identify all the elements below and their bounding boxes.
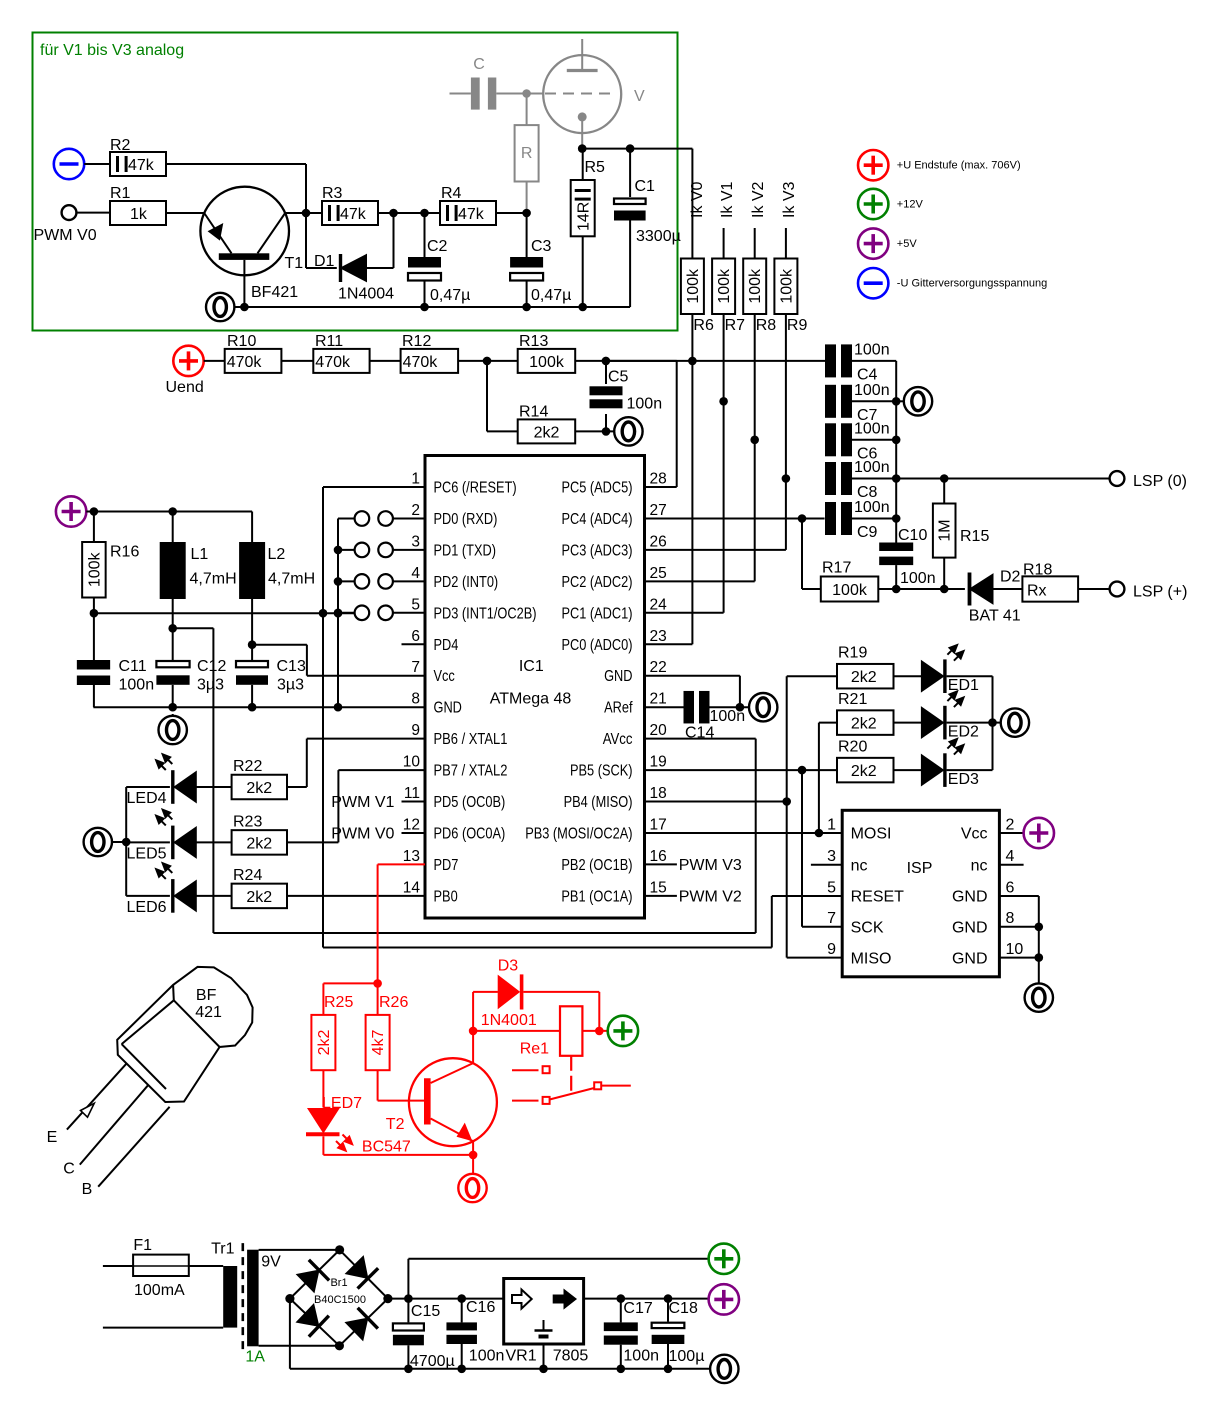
- svg-text:PB3 (MOSI/OC2A): PB3 (MOSI/OC2A): [525, 826, 632, 843]
- svg-text:100n: 100n: [900, 570, 936, 587]
- svg-text:3: 3: [411, 533, 420, 550]
- svg-text:C3: C3: [531, 238, 552, 255]
- svg-text:+U Endstufe (max. 706V): +U Endstufe (max. 706V): [897, 160, 1021, 172]
- svg-text:C: C: [473, 56, 485, 73]
- svg-text:12: 12: [403, 817, 420, 834]
- svg-text:R9: R9: [787, 317, 808, 334]
- svg-text:C18: C18: [669, 1300, 698, 1317]
- svg-text:9V: 9V: [261, 1254, 281, 1271]
- svg-text:421: 421: [195, 1004, 222, 1021]
- svg-text:8: 8: [411, 691, 420, 708]
- svg-text:R18: R18: [1023, 562, 1052, 579]
- svg-text:R13: R13: [519, 333, 548, 350]
- svg-text:5: 5: [827, 879, 836, 896]
- svg-text:1: 1: [411, 471, 420, 488]
- svg-text:V: V: [634, 88, 645, 105]
- svg-text:R25: R25: [324, 994, 353, 1011]
- svg-text:2k2: 2k2: [851, 669, 877, 686]
- svg-text:100n: 100n: [710, 708, 746, 725]
- svg-text:R11: R11: [315, 333, 343, 350]
- svg-text:C17: C17: [623, 1300, 652, 1317]
- svg-text:T2: T2: [386, 1116, 405, 1133]
- svg-text:PD1 (TXD): PD1 (TXD): [434, 542, 497, 559]
- svg-text:2k2: 2k2: [246, 889, 272, 906]
- svg-text:47k: 47k: [340, 206, 367, 223]
- svg-text:8: 8: [1006, 910, 1015, 927]
- svg-text:R21: R21: [838, 691, 867, 708]
- svg-text:PWM V3: PWM V3: [679, 857, 742, 874]
- svg-text:2: 2: [1006, 816, 1015, 833]
- svg-text:100k: 100k: [685, 268, 702, 304]
- svg-text:0,47µ: 0,47µ: [430, 287, 470, 304]
- svg-text:GND: GND: [604, 668, 632, 685]
- svg-text:100k: 100k: [529, 354, 565, 371]
- svg-text:4,7mH: 4,7mH: [268, 571, 315, 588]
- svg-text:BC547: BC547: [362, 1139, 411, 1156]
- svg-text:25: 25: [650, 565, 667, 582]
- svg-text:R3: R3: [322, 185, 343, 202]
- svg-text:R4: R4: [441, 185, 462, 202]
- svg-text:100µ: 100µ: [669, 1348, 705, 1365]
- svg-text:14: 14: [403, 879, 421, 896]
- svg-text:PC6 (/RESET): PC6 (/RESET): [434, 480, 517, 497]
- svg-text:4k7: 4k7: [370, 1030, 387, 1056]
- svg-text:Br1: Br1: [330, 1277, 347, 1289]
- svg-text:L2: L2: [268, 546, 286, 563]
- svg-text:19: 19: [650, 754, 667, 771]
- svg-text:D1: D1: [314, 253, 335, 270]
- svg-text:470k: 470k: [227, 354, 263, 371]
- svg-text:C15: C15: [411, 1303, 440, 1320]
- svg-text:Uend: Uend: [166, 379, 204, 396]
- svg-text:Tr1: Tr1: [211, 1241, 235, 1258]
- svg-text:C14: C14: [685, 725, 714, 742]
- svg-text:C5: C5: [608, 369, 629, 386]
- svg-text:9: 9: [411, 722, 420, 739]
- svg-text:R: R: [521, 145, 533, 162]
- svg-text:18: 18: [650, 785, 667, 802]
- svg-text:für V1 bis V3 analog: für V1 bis V3 analog: [40, 42, 184, 59]
- svg-text:27: 27: [650, 502, 667, 519]
- svg-text:100n: 100n: [119, 677, 155, 694]
- svg-text:Ik V3: Ik V3: [781, 181, 798, 218]
- svg-text:100k: 100k: [86, 551, 103, 587]
- svg-text:10: 10: [403, 754, 421, 771]
- svg-text:R19: R19: [838, 645, 867, 662]
- svg-text:R23: R23: [233, 813, 262, 830]
- svg-text:24: 24: [650, 596, 668, 613]
- svg-text:R2: R2: [110, 137, 131, 154]
- svg-text:PB4 (MISO): PB4 (MISO): [564, 794, 633, 811]
- svg-text:100k: 100k: [832, 582, 868, 599]
- svg-text:PD0 (RXD): PD0 (RXD): [434, 511, 498, 528]
- svg-text:PC2 (ADC2): PC2 (ADC2): [562, 574, 633, 591]
- svg-text:2: 2: [411, 502, 420, 519]
- svg-text:R16: R16: [110, 544, 139, 561]
- svg-text:1N4004: 1N4004: [338, 286, 394, 303]
- svg-text:IC1: IC1: [519, 658, 544, 675]
- svg-text:PD6 (OC0A): PD6 (OC0A): [434, 826, 506, 843]
- svg-text:4: 4: [1006, 848, 1015, 865]
- svg-text:PB2 (OC1B): PB2 (OC1B): [561, 857, 632, 874]
- svg-text:C12: C12: [197, 658, 226, 675]
- svg-text:ISP: ISP: [907, 860, 933, 877]
- svg-text:R6: R6: [693, 317, 714, 334]
- svg-text:F1: F1: [133, 1237, 152, 1254]
- svg-text:Ik V1: Ik V1: [719, 181, 736, 218]
- svg-text:R22: R22: [233, 758, 262, 775]
- svg-text:28: 28: [650, 471, 667, 488]
- svg-text:1A: 1A: [245, 1349, 265, 1366]
- svg-text:PWM V0: PWM V0: [34, 227, 97, 244]
- svg-text:LSP (0): LSP (0): [1133, 473, 1187, 490]
- svg-text:R5: R5: [585, 159, 606, 176]
- svg-text:R8: R8: [756, 317, 777, 334]
- svg-text:PB0: PB0: [434, 888, 459, 905]
- svg-text:100n: 100n: [854, 499, 890, 516]
- svg-text:VR1: VR1: [506, 1348, 537, 1365]
- svg-text:100mA: 100mA: [134, 1282, 185, 1299]
- svg-text:BAT 41: BAT 41: [969, 608, 1021, 625]
- svg-text:PC3 (ADC3): PC3 (ADC3): [562, 542, 633, 559]
- svg-text:2k2: 2k2: [851, 763, 877, 780]
- svg-text:PB7 / XTAL2: PB7 / XTAL2: [434, 763, 508, 780]
- svg-text:nc: nc: [971, 857, 988, 874]
- svg-text:16: 16: [650, 848, 667, 865]
- svg-text:nc: nc: [851, 857, 868, 874]
- svg-text:D2: D2: [1000, 569, 1021, 586]
- svg-text:ED3: ED3: [948, 771, 979, 788]
- svg-text:ED2: ED2: [948, 724, 979, 741]
- svg-text:PC1 (ADC1): PC1 (ADC1): [562, 605, 633, 622]
- svg-text:100n: 100n: [623, 1348, 659, 1365]
- svg-text:R12: R12: [402, 333, 431, 350]
- svg-text:4: 4: [411, 565, 420, 582]
- svg-text:L1: L1: [191, 546, 209, 563]
- svg-text:3µ3: 3µ3: [277, 677, 304, 694]
- svg-text:3300µ: 3300µ: [636, 228, 681, 245]
- svg-text:ED1: ED1: [948, 677, 979, 694]
- svg-text:2k2: 2k2: [316, 1030, 333, 1056]
- svg-text:1k: 1k: [130, 206, 148, 223]
- svg-text:0,47µ: 0,47µ: [531, 287, 571, 304]
- svg-text:22: 22: [650, 659, 667, 676]
- svg-text:PWM V0: PWM V0: [331, 826, 394, 843]
- svg-text:100k: 100k: [747, 268, 764, 304]
- svg-text:PB6 / XTAL1: PB6 / XTAL1: [434, 731, 508, 748]
- svg-text:26: 26: [650, 533, 667, 550]
- svg-text:ARef: ARef: [604, 700, 633, 717]
- svg-text:1: 1: [827, 816, 836, 833]
- svg-text:5: 5: [411, 596, 420, 613]
- svg-text:14R: 14R: [576, 202, 593, 231]
- svg-text:PWM V1: PWM V1: [331, 794, 394, 811]
- svg-text:4700µ: 4700µ: [410, 1353, 455, 1370]
- svg-text:PC4 (ADC4): PC4 (ADC4): [562, 511, 633, 528]
- svg-text:B: B: [82, 1181, 93, 1198]
- svg-text:21: 21: [650, 691, 667, 708]
- svg-text:GND: GND: [434, 700, 462, 717]
- svg-text:AVcc: AVcc: [603, 731, 633, 748]
- svg-text:+12V: +12V: [897, 198, 924, 210]
- svg-text:100n: 100n: [469, 1348, 505, 1365]
- svg-text:C: C: [63, 1161, 75, 1178]
- svg-text:47k: 47k: [458, 206, 485, 223]
- svg-text:Rx: Rx: [1027, 583, 1047, 600]
- svg-text:6: 6: [411, 628, 420, 645]
- svg-text:LSP (+): LSP (+): [1133, 584, 1187, 601]
- svg-text:9: 9: [827, 941, 836, 958]
- svg-text:7: 7: [411, 659, 420, 676]
- svg-text:100n: 100n: [854, 382, 890, 399]
- svg-text:100k: 100k: [716, 268, 733, 304]
- svg-text:2k2: 2k2: [851, 716, 877, 733]
- svg-text:R26: R26: [379, 994, 408, 1011]
- svg-text:PC5 (ADC5): PC5 (ADC5): [562, 480, 633, 497]
- svg-text:47k: 47k: [128, 157, 155, 174]
- svg-text:C9: C9: [857, 524, 878, 541]
- svg-text:Vcc: Vcc: [961, 826, 988, 843]
- svg-text:B40C1500: B40C1500: [314, 1294, 366, 1306]
- svg-text:15: 15: [650, 879, 667, 896]
- svg-text:17: 17: [650, 817, 667, 834]
- svg-text:R14: R14: [519, 404, 548, 421]
- svg-text:GND: GND: [952, 950, 988, 967]
- svg-text:R20: R20: [838, 739, 867, 756]
- svg-text:6: 6: [1006, 879, 1015, 896]
- svg-text:PD5 (OC0B): PD5 (OC0B): [434, 794, 506, 811]
- svg-text:R15: R15: [960, 528, 989, 545]
- svg-text:7: 7: [827, 910, 836, 927]
- svg-text:R7: R7: [725, 317, 746, 334]
- svg-text:13: 13: [403, 848, 420, 865]
- svg-text:C11: C11: [119, 658, 147, 675]
- svg-text:-U Gitterversorgungsspannung: -U Gitterversorgungsspannung: [897, 278, 1047, 290]
- svg-text:PD7: PD7: [434, 857, 459, 874]
- svg-text:LED7: LED7: [322, 1095, 362, 1112]
- svg-text:C13: C13: [277, 658, 306, 675]
- svg-text:R1: R1: [110, 185, 131, 202]
- svg-text:1N4001: 1N4001: [481, 1012, 537, 1029]
- svg-text:470k: 470k: [315, 354, 351, 371]
- svg-text:7805: 7805: [553, 1348, 589, 1365]
- svg-text:2k2: 2k2: [246, 780, 272, 797]
- svg-text:BF421: BF421: [251, 284, 298, 301]
- svg-text:MISO: MISO: [851, 950, 892, 967]
- svg-text:2k2: 2k2: [534, 424, 560, 441]
- svg-text:LED5: LED5: [127, 845, 167, 862]
- svg-text:PD4: PD4: [434, 637, 459, 654]
- svg-text:100n: 100n: [854, 459, 890, 476]
- svg-text:LED6: LED6: [127, 899, 167, 916]
- svg-text:1M: 1M: [937, 519, 954, 541]
- svg-text:R24: R24: [233, 867, 262, 884]
- svg-text:11: 11: [404, 785, 420, 802]
- svg-text:RESET: RESET: [851, 889, 905, 906]
- svg-text:LED4: LED4: [127, 790, 167, 807]
- svg-text:PC0 (ADC0): PC0 (ADC0): [562, 637, 633, 654]
- svg-text:100n: 100n: [627, 396, 663, 413]
- svg-text:Vcc: Vcc: [434, 668, 456, 685]
- svg-text:100n: 100n: [854, 341, 890, 358]
- svg-text:PWM V2: PWM V2: [679, 888, 742, 905]
- svg-text:R10: R10: [227, 333, 256, 350]
- svg-text:E: E: [47, 1129, 58, 1146]
- svg-text:3: 3: [827, 848, 836, 865]
- svg-text:2k2: 2k2: [246, 835, 272, 852]
- svg-text:D3: D3: [498, 958, 519, 975]
- svg-text:T1: T1: [285, 255, 304, 272]
- svg-text:10: 10: [1006, 941, 1024, 958]
- svg-text:GND: GND: [952, 920, 988, 937]
- svg-text:C2: C2: [427, 238, 448, 255]
- svg-text:100k: 100k: [778, 268, 795, 304]
- svg-text:C10: C10: [898, 527, 927, 544]
- svg-text:GND: GND: [952, 889, 988, 906]
- svg-text:ATMega 48: ATMega 48: [490, 691, 572, 708]
- svg-text:PB5 (SCK): PB5 (SCK): [570, 763, 633, 780]
- svg-text:C16: C16: [466, 1299, 495, 1316]
- svg-text:C1: C1: [635, 178, 656, 195]
- svg-text:PD2 (INT0): PD2 (INT0): [434, 574, 499, 591]
- svg-text:R17: R17: [822, 560, 851, 577]
- svg-text:Ik V2: Ik V2: [750, 181, 767, 218]
- svg-text:Ik V0: Ik V0: [689, 181, 706, 218]
- svg-text:SCK: SCK: [851, 920, 884, 937]
- svg-text:Re1: Re1: [520, 1041, 549, 1058]
- svg-text:3µ3: 3µ3: [197, 677, 224, 694]
- svg-text:PD3 (INT1/OC2B): PD3 (INT1/OC2B): [434, 605, 537, 622]
- svg-text:MOSI: MOSI: [851, 826, 892, 843]
- svg-text:470k: 470k: [403, 354, 439, 371]
- svg-text:4,7mH: 4,7mH: [190, 571, 237, 588]
- svg-text:23: 23: [650, 628, 667, 645]
- svg-text:100n: 100n: [854, 420, 890, 437]
- svg-text:+5V: +5V: [897, 238, 918, 250]
- svg-text:20: 20: [650, 722, 668, 739]
- svg-text:PB1 (OC1A): PB1 (OC1A): [561, 888, 632, 905]
- svg-text:BF: BF: [196, 987, 217, 1004]
